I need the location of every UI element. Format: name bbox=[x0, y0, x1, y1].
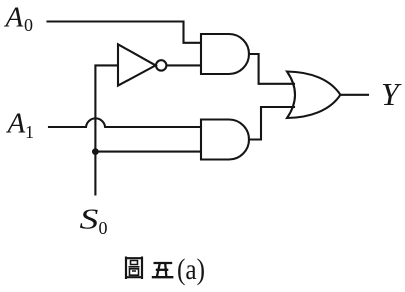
junction dot bbox=[92, 148, 99, 155]
label Y output bbox=[381, 76, 402, 112]
wire A1 with hop over S0 bbox=[49, 118, 200, 127]
wire inverter output to AND1 bbox=[167, 64, 201, 66]
wire S0 junction to AND2 lower input bbox=[95, 151, 200, 153]
or-gate U4 bbox=[287, 72, 340, 119]
node A0 input wire bbox=[48, 22, 201, 43]
label A1 bbox=[6, 108, 35, 142]
wire AND2 output to OR input bbox=[249, 107, 294, 140]
svg-text:1: 1 bbox=[25, 122, 34, 142]
caption hanzi TU (figure) bbox=[126, 257, 142, 280]
svg-text:A: A bbox=[6, 108, 26, 140]
svg-text:0: 0 bbox=[24, 15, 33, 35]
wire AND1 output to OR input bbox=[249, 54, 294, 84]
and-gate U2 (top AND) bbox=[201, 34, 249, 74]
label A0 bbox=[4, 2, 34, 36]
svg-text:A: A bbox=[4, 2, 24, 34]
and-gate U3 (bottom AND) bbox=[201, 120, 249, 160]
label S0 bbox=[80, 203, 108, 238]
svg-text:0: 0 bbox=[99, 218, 108, 238]
svg-text:S: S bbox=[80, 203, 99, 235]
inverter U1 (NOT gate) bbox=[118, 44, 156, 85]
inverter bubble bbox=[156, 60, 166, 70]
node S0 vertical wire bbox=[95, 65, 117, 194]
svg-text:(a): (a) bbox=[177, 253, 205, 286]
wire OR output to Y bbox=[340, 94, 368, 96]
caption hanzi WU (five) bbox=[152, 263, 174, 277]
